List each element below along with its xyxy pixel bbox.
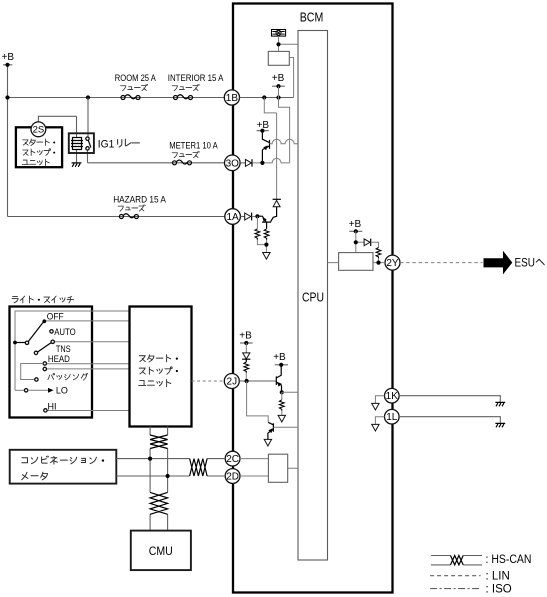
svg-text:ROOM 25 A: ROOM 25 A: [115, 73, 156, 83]
svg-text:+B: +B: [239, 330, 252, 341]
svg-text:2J: 2J: [227, 377, 238, 388]
svg-text:1A: 1A: [226, 212, 239, 223]
svg-text:HEAD: HEAD: [48, 354, 70, 364]
svg-text:2D: 2D: [226, 472, 239, 483]
svg-text:3O: 3O: [226, 158, 240, 169]
svg-text:HAZARD 15 A: HAZARD 15 A: [113, 195, 166, 205]
svg-text:1L: 1L: [386, 412, 398, 423]
svg-text:2C: 2C: [226, 454, 239, 465]
svg-text:1B: 1B: [226, 93, 239, 104]
svg-text:TNS: TNS: [56, 344, 71, 354]
svg-text:INTERIOR 15 A: INTERIOR 15 A: [168, 73, 224, 83]
svg-text:BCM: BCM: [300, 10, 324, 25]
svg-text:+B: +B: [272, 73, 285, 84]
svg-text:+B: +B: [273, 352, 286, 363]
svg-text:METER1 10 A: METER1 10 A: [169, 140, 218, 150]
svg-text:CMU: CMU: [149, 544, 173, 558]
svg-text:: ISO: : ISO: [486, 584, 512, 596]
svg-text:2S: 2S: [33, 125, 45, 136]
svg-text:OFF: OFF: [47, 312, 64, 322]
svg-text:: LIN: : LIN: [486, 571, 510, 583]
svg-text:ESU: ESU: [515, 257, 536, 269]
svg-text:IG1: IG1: [98, 138, 115, 150]
svg-text:+B: +B: [349, 219, 362, 230]
svg-text:1K: 1K: [386, 391, 399, 402]
svg-text:2Y: 2Y: [386, 258, 399, 269]
svg-text:: HS-CAN: : HS-CAN: [486, 554, 532, 566]
svg-text:LO: LO: [56, 385, 68, 395]
svg-text:CPU: CPU: [302, 290, 324, 305]
svg-text:+B: +B: [2, 52, 15, 63]
svg-text:HI: HI: [48, 401, 57, 411]
svg-text:AUTO: AUTO: [54, 327, 75, 337]
